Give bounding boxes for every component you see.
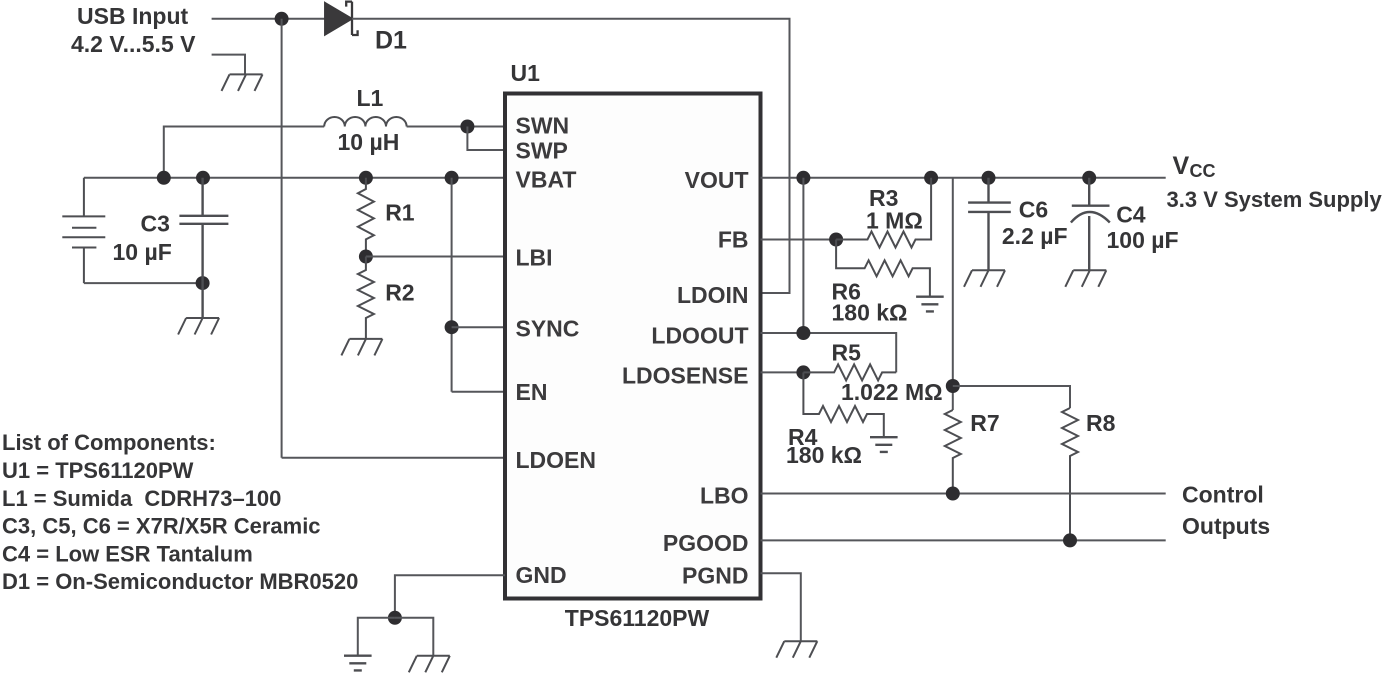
svg-text:R1: R1 [385, 200, 415, 226]
svg-text:10 µF: 10 µF [113, 239, 172, 265]
node FB junction [829, 233, 843, 247]
svg-text:SWN: SWN [516, 113, 570, 139]
resistor R3 [836, 178, 931, 248]
svg-text:1.022 MΩ: 1.022 MΩ [841, 379, 943, 405]
node LDOOUT junction [796, 326, 810, 340]
label R4 [788, 424, 818, 450]
label C4 [1116, 202, 1146, 228]
label R7 [970, 410, 999, 436]
svg-text:L1 = Sumida CDRH73–100: L1 = Sumida CDRH73–100 [2, 486, 281, 511]
svg-text:R2: R2 [385, 280, 414, 306]
label 3.3 V System Supply [1167, 187, 1383, 212]
svg-text:R8: R8 [1086, 410, 1116, 436]
resistor R5 [803, 364, 896, 380]
battery B1 [62, 178, 105, 283]
ground chassis USB [222, 74, 263, 91]
svg-text:C6: C6 [1019, 197, 1048, 223]
pin PGOOD [663, 530, 749, 556]
label R2 [385, 280, 414, 306]
wire battery bottom to C3 bottom [84, 282, 203, 284]
svg-text:GND: GND [516, 562, 567, 588]
wire R7 to R8 top [953, 386, 1070, 408]
wire GND to grounds [395, 575, 505, 618]
svg-text:4.2 V...5.5 V: 4.2 V...5.5 V [71, 31, 196, 57]
label C6 [1019, 197, 1048, 223]
svg-text:C4: C4 [1116, 202, 1146, 228]
svg-text:C3: C3 [141, 211, 170, 237]
label 100 µF [1107, 227, 1179, 253]
ground chassis GND-right [409, 656, 450, 673]
svg-text:D1 = On-Semiconductor MBR0520: D1 = On-Semiconductor MBR0520 [2, 569, 358, 594]
wire L1 left + corner down to VBAT [164, 127, 324, 178]
label R3 [869, 185, 898, 211]
wire LDOEN [282, 457, 505, 459]
svg-text:PGOOD: PGOOD [663, 530, 749, 556]
svg-text:C3, C5, C6 = X7R/X5R Ceramic: C3, C5, C6 = X7R/X5R Ceramic [2, 514, 321, 539]
wire L1 to SWN [407, 126, 505, 128]
svg-text:LBO: LBO [700, 483, 749, 509]
label D1 [375, 27, 407, 55]
svg-text:180 kΩ: 180 kΩ [786, 442, 862, 468]
svg-text:SYNC: SYNC [516, 316, 580, 342]
svg-text:Control: Control [1182, 482, 1264, 508]
resistor R6 [836, 240, 930, 297]
node LBO junction [946, 487, 960, 501]
pin EN [516, 379, 548, 405]
capacitor C6 [968, 178, 1011, 270]
node SWN junction [460, 120, 474, 134]
capacitor C4 polarized [1071, 178, 1110, 270]
svg-text:R7: R7 [970, 410, 999, 436]
label Outputs [1182, 513, 1270, 539]
ground signal GND-left [344, 656, 372, 671]
svg-text:USB Input: USB Input [77, 3, 188, 29]
ground chassis C4 [1065, 270, 1106, 287]
label 10 µH [338, 129, 400, 155]
label 4.2 V...5.5 V [71, 31, 196, 57]
label 1.022 MΩ [841, 379, 943, 405]
label R1 [385, 200, 415, 226]
wire to SWP [467, 127, 505, 151]
label R8 [1086, 410, 1116, 436]
wire to signal ground left [358, 618, 395, 656]
pin LDOSENSE [622, 363, 749, 389]
wire LDOOUT loop [761, 178, 897, 373]
svg-text:U1: U1 [511, 60, 541, 86]
svg-text:U1 = TPS61120PW: U1 = TPS61120PW [2, 458, 194, 483]
svg-text:LDOIN: LDOIN [677, 282, 749, 308]
svg-text:FB: FB [718, 227, 749, 253]
wire LBI [366, 256, 505, 258]
wire VOUT rail [761, 177, 1166, 179]
wire VBAT to SYNC/EN vertical [451, 178, 453, 392]
pin VBAT [516, 167, 577, 193]
label 1 MΩ [866, 208, 923, 234]
svg-text:EN: EN [516, 379, 548, 405]
svg-text:TPS61120PW: TPS61120PW [565, 605, 710, 631]
resistor R7 [945, 410, 961, 494]
pin LDOEN [516, 447, 597, 473]
wire VOUT tee to R7 [952, 178, 954, 410]
diode D1 [325, 2, 357, 35]
label VCC [1173, 152, 1216, 181]
label USB Input [77, 3, 188, 29]
ground chassis PGND [776, 641, 817, 658]
ground signal R4 [870, 437, 898, 452]
wire FB [761, 239, 837, 241]
pin LDOOUT [651, 323, 748, 349]
wire SYNC [452, 326, 505, 328]
label 180 kΩ R6 [832, 299, 908, 325]
label 10 µF [113, 239, 172, 265]
ground chassis C3 [178, 318, 219, 335]
node SYNC junction [445, 320, 459, 334]
svg-text:LDOSENSE: LDOSENSE [622, 363, 749, 389]
resistor R4 [803, 372, 883, 437]
node GND split junction [388, 611, 402, 625]
node R7 top junction [946, 379, 960, 393]
svg-text:100 µF: 100 µF [1107, 227, 1179, 253]
label U1 [511, 60, 541, 86]
pin VOUT [685, 167, 749, 193]
wire PGOOD [761, 539, 1166, 541]
node PGOOD junction [1063, 533, 1077, 547]
pin SWN [516, 113, 570, 139]
node USB/D1 junction [275, 12, 289, 26]
wire LBO [761, 493, 1166, 495]
svg-text:180 kΩ: 180 kΩ [832, 299, 908, 325]
wire PGND [761, 573, 801, 641]
label TPS61120PW below box [565, 605, 710, 631]
label 2.2 µF [1002, 223, 1068, 249]
svg-text:LDOEN: LDOEN [516, 447, 597, 473]
wire USB input to diode [212, 18, 326, 20]
ground chassis C6 [964, 270, 1005, 287]
wire USB junction down to LDOEN [281, 19, 283, 458]
svg-text:List of Components:: List of Components: [2, 430, 216, 455]
svg-text:C4 = Low ESR Tantalum: C4 = Low ESR Tantalum [2, 542, 253, 567]
label 180 kΩ R4 [786, 442, 862, 468]
pin LBO [700, 483, 749, 509]
svg-text:LDOOUT: LDOOUT [651, 323, 748, 349]
svg-text:CC: CC [1190, 161, 1216, 181]
svg-text:3.3 V System Supply: 3.3 V System Supply [1167, 187, 1383, 212]
svg-text:10 µH: 10 µH [338, 129, 400, 155]
ground signal R6 [916, 297, 944, 312]
label list of components [2, 430, 358, 594]
svg-text:V: V [1173, 152, 1190, 180]
svg-text:LBI: LBI [516, 245, 553, 271]
op-amp U1 box [505, 94, 761, 599]
svg-text:R5: R5 [832, 340, 862, 366]
label L1 [357, 85, 384, 111]
label C3 [141, 211, 170, 237]
wire to chassis ground right [395, 618, 433, 656]
svg-text:1 MΩ: 1 MΩ [866, 208, 923, 234]
resistor R8 [1062, 408, 1078, 540]
node LDOSENSE junction [796, 365, 810, 379]
svg-text:SWP: SWP [516, 138, 568, 164]
ground chassis R2 [341, 339, 382, 356]
pin LDOIN [677, 282, 749, 308]
svg-text:2.2 µF: 2.2 µF [1002, 223, 1068, 249]
resistor R1 [358, 178, 374, 257]
svg-text:D1: D1 [375, 27, 407, 55]
node VOUT rail junctions [796, 171, 1096, 185]
svg-text:VBAT: VBAT [516, 167, 577, 193]
pin SWP [516, 138, 568, 164]
inductor L1 [324, 117, 406, 127]
node VBAT rail junctions [157, 171, 459, 185]
capacitor C3 [179, 178, 228, 318]
pin PGND [682, 563, 748, 589]
resistor R2 [358, 257, 374, 339]
label R6 [832, 278, 861, 304]
wire USB ground stub [212, 55, 245, 75]
wire diode to LDOIN vertical [352, 19, 790, 293]
label Control [1182, 482, 1264, 508]
label R5 [832, 340, 862, 366]
node LBI junction [359, 250, 373, 264]
svg-text:PGND: PGND [682, 563, 748, 589]
node C3 bottom junction [196, 276, 210, 290]
pin FB [718, 227, 749, 253]
wire LDOSENSE [761, 371, 804, 373]
pin LBI [516, 245, 553, 271]
svg-text:L1: L1 [357, 85, 384, 111]
pin SYNC [516, 316, 580, 342]
wire VBAT rail [84, 177, 505, 179]
svg-text:VOUT: VOUT [685, 167, 749, 193]
pin GND [516, 562, 567, 588]
svg-text:Outputs: Outputs [1182, 513, 1270, 539]
wire EN [452, 391, 505, 393]
